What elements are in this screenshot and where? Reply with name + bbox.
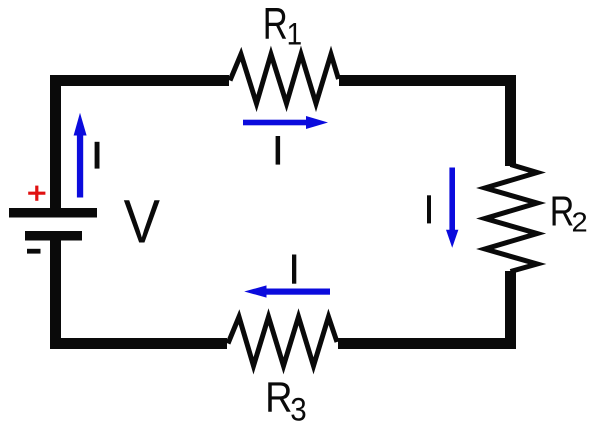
current arrow up (left branch)	[74, 113, 87, 198]
svg-text:1: 1	[287, 17, 302, 52]
current arrow down (right branch beside R2)	[446, 168, 458, 248]
current label I (bottom branch)	[292, 255, 296, 284]
battery plus sign	[28, 186, 45, 201]
battery V: negative short plate	[25, 231, 82, 241]
current label I (left branch)	[95, 142, 100, 169]
resistor R2 zigzag	[485, 165, 537, 272]
wire: right vertical below R2 + bottom-right horizontal to R3	[338, 271, 511, 344]
wire: left vertical upper + top-left horizontal run to R1	[56, 81, 230, 213]
resistor R1 zigzag	[230, 54, 339, 103]
current label I (right branch)	[427, 195, 431, 223]
current label I (top branch)	[276, 136, 281, 165]
battery V: positive long plate	[9, 208, 97, 218]
svg-text:R: R	[263, 0, 288, 48]
svg-text:2: 2	[572, 207, 588, 238]
svg-text:R: R	[550, 189, 575, 235]
svg-text:3: 3	[290, 391, 306, 425]
current arrow left (bottom branch above R3)	[244, 285, 330, 297]
wire: top-right horizontal from R1 + right vertical down to R2	[339, 81, 511, 167]
svg-text:R: R	[265, 374, 292, 421]
svg-text:V: V	[124, 188, 161, 257]
battery minus sign	[27, 249, 41, 254]
resistor R3 zigzag	[228, 317, 337, 366]
current arrow right (top branch under R1)	[243, 116, 328, 129]
wire: bottom-left horizontal from R3 + left vertical up to battery minus plate	[56, 236, 228, 344]
